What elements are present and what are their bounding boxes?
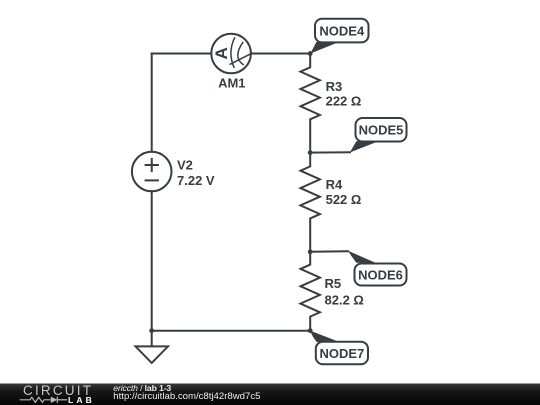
wire to NODE6 flag <box>310 250 349 253</box>
ammeter AM1 inner arcs and needle <box>230 37 253 68</box>
node dot NODE7 <box>308 328 313 333</box>
svg-text:NODE6: NODE6 <box>358 268 403 283</box>
node NODE4 flag tail <box>311 42 339 54</box>
svg-text:NODE4: NODE4 <box>319 24 365 39</box>
node dot NODE6 <box>308 249 313 254</box>
wire bottom horizontal <box>152 330 311 332</box>
svg-text:NODE5: NODE5 <box>359 123 404 138</box>
voltage source V2 circle <box>132 152 172 192</box>
wire ground stub <box>151 331 153 347</box>
resistor R3 <box>301 54 320 153</box>
svg-text:A: A <box>212 47 231 59</box>
ground <box>136 346 169 363</box>
svg-text:82.2 Ω: 82.2 Ω <box>325 292 364 307</box>
svg-text:222 Ω: 222 Ω <box>326 94 362 109</box>
wire top-left horizontal <box>152 53 212 55</box>
node NODE4 bubble <box>315 19 369 43</box>
svg-text:NODE7: NODE7 <box>320 346 365 361</box>
ammeter AM1 circle <box>211 34 251 74</box>
node dot NODE5 <box>308 150 313 155</box>
node NODE6 flag tail <box>348 251 376 263</box>
node NODE6 bubble <box>355 264 407 286</box>
node NODE5 bubble <box>356 118 407 142</box>
wire left rail lower <box>151 191 153 330</box>
V2 plus sign <box>146 159 158 171</box>
node NODE7 bubble <box>316 342 368 365</box>
resistor R4 <box>301 153 320 252</box>
logo schematic line <box>20 397 67 403</box>
resistor R5 <box>301 252 320 331</box>
node NODE7 flag tail <box>310 331 337 342</box>
wire top-right horizontal <box>251 53 310 55</box>
node dot NODE4 <box>308 51 313 56</box>
svg-text:7.22 V: 7.22 V <box>177 173 215 188</box>
V2 minus sign <box>146 179 158 181</box>
svg-text:R3: R3 <box>326 79 343 94</box>
node dot ground junction <box>149 328 154 333</box>
svg-text:R4: R4 <box>326 177 343 192</box>
svg-text:522 Ω: 522 Ω <box>326 192 362 207</box>
svg-text:LAB: LAB <box>68 395 95 405</box>
svg-text:AM1: AM1 <box>218 76 245 91</box>
wire left rail upper <box>151 54 153 152</box>
svg-text:R5: R5 <box>325 276 342 291</box>
wire to NODE5 flag <box>310 151 351 153</box>
svg-text:http://circuitlab.com/c8tj42r8: http://circuitlab.com/c8tj42r8wd7c5 <box>113 391 260 402</box>
logo diode <box>51 397 58 403</box>
svg-text:V2: V2 <box>177 158 193 173</box>
node NODE5 flag tail <box>350 141 378 152</box>
